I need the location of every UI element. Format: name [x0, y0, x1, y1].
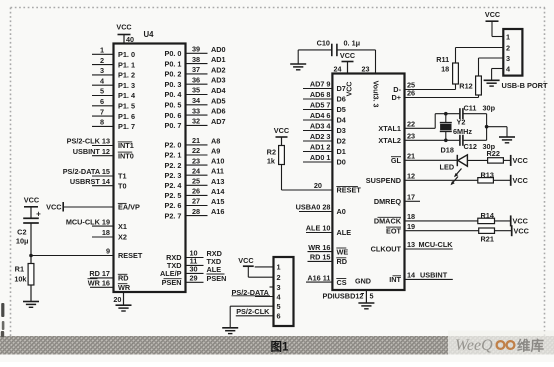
svg-text:WR 16: WR 16 — [88, 279, 110, 288]
svg-text:29: 29 — [189, 274, 197, 283]
svg-text:GL: GL — [391, 156, 402, 165]
svg-text:ALE/P: ALE/P — [160, 269, 182, 278]
svg-text:RD: RD — [118, 274, 129, 283]
svg-text:A16: A16 — [211, 207, 224, 216]
svg-text:A11: A11 — [211, 167, 224, 176]
svg-text:2: 2 — [100, 56, 104, 65]
svg-text:5: 5 — [277, 302, 281, 311]
svg-text:VCC: VCC — [513, 176, 529, 185]
D12 pin 4 D3 — [303, 122, 346, 136]
svg-text:X1: X1 — [118, 222, 127, 231]
U4 pin 36 P0.3 -> AD3 — [164, 75, 225, 89]
svg-text:24: 24 — [192, 166, 201, 175]
svg-text:PSEN: PSEN — [162, 278, 182, 287]
svg-text:P1. 0: P1. 0 — [118, 50, 135, 59]
resistor R13 on SUSPEND — [478, 170, 511, 183]
PS/2 pin 5 to ground — [230, 306, 273, 327]
svg-text:D6: D6 — [337, 95, 346, 104]
resistor R11 18 on D- — [436, 48, 458, 90]
svg-text:P0. 7: P0. 7 — [164, 121, 181, 130]
U4 pin 34 P0.5 -> AD5 — [164, 96, 225, 110]
svg-text:6: 6 — [100, 97, 104, 106]
D12 pin 17 DMREQ — [374, 193, 420, 207]
resistor R22 — [487, 149, 511, 163]
U4 pin 15 T1 / PS/2-DATA — [63, 167, 127, 181]
svg-text:GND: GND — [355, 277, 371, 286]
PS/2 pin 6 wire PS/2-CLK — [236, 307, 274, 316]
U4 pin 9 RESET — [31, 247, 143, 261]
svg-text:7: 7 — [100, 107, 104, 116]
ground under R1 — [23, 301, 39, 303]
svg-text:6: 6 — [277, 312, 281, 321]
VCC feeding C2 — [24, 196, 40, 218]
scan halftone band — [0, 336, 554, 355]
D12 pin 20 RESET — [282, 181, 362, 195]
svg-text:12: 12 — [407, 172, 415, 181]
svg-text:34: 34 — [192, 96, 201, 105]
svg-text:1: 1 — [506, 32, 510, 41]
D12 pin 2 D1 — [303, 143, 346, 157]
svg-text:AD1 2: AD1 2 — [310, 143, 331, 152]
svg-text:P2. 3: P2. 3 — [164, 171, 181, 180]
svg-text:C12: C12 — [464, 142, 477, 151]
svg-text:18: 18 — [441, 65, 449, 74]
svg-text:D1: D1 — [337, 147, 346, 156]
svg-text:AD4: AD4 — [211, 86, 227, 95]
U4 pin 24 P2.3 -> A11 — [164, 166, 224, 180]
D12 pin 5 GND — [355, 277, 373, 303]
svg-text:3: 3 — [100, 66, 104, 75]
svg-text:R21: R21 — [481, 235, 494, 244]
svg-text:PS/2-CLK 13: PS/2-CLK 13 — [67, 137, 110, 146]
svg-text:AD0: AD0 — [211, 45, 226, 54]
U4 pin EA/VP tied to VCC — [46, 202, 140, 212]
USB pin 2 wire — [456, 47, 504, 49]
svg-text:USBA0 28: USBA0 28 — [296, 203, 331, 212]
svg-text:USB-B PORT: USB-B PORT — [502, 81, 548, 90]
svg-text:21: 21 — [192, 136, 200, 145]
ground for C10 — [297, 50, 299, 64]
PS/2 pin 3 stub — [270, 286, 274, 288]
D12 pin 28 A0 — [296, 203, 346, 217]
svg-text:18: 18 — [102, 228, 110, 237]
D12 pin 10 ALE — [306, 224, 351, 238]
U4 pin 30 ALE — [160, 265, 221, 279]
svg-text:PS/2-CLK: PS/2-CLK — [236, 307, 270, 316]
U4 pin 25 P2.4 -> A13 — [164, 177, 224, 191]
D12 pin 3 D2 — [303, 132, 346, 146]
svg-text:22: 22 — [407, 120, 415, 129]
svg-text:P0. 6: P0. 6 — [164, 111, 181, 120]
svg-text:DMACK: DMACK — [374, 217, 402, 226]
D12 pin 23 XTAL2 — [378, 132, 459, 146]
svg-text:C11: C11 — [464, 103, 477, 112]
svg-text:LED: LED — [440, 163, 455, 172]
svg-text:13: 13 — [407, 240, 415, 249]
svg-text:P2. 6: P2. 6 — [164, 201, 181, 210]
svg-text:21: 21 — [407, 152, 415, 161]
resistor R12 on D+ — [459, 58, 481, 98]
svg-text:RD: RD — [337, 257, 348, 266]
capacitor C10 0.1u on Vout3.3 — [298, 39, 375, 57]
svg-text:25: 25 — [192, 177, 200, 186]
svg-text:3: 3 — [277, 283, 281, 292]
svg-text:P2. 1: P2. 1 — [164, 151, 181, 160]
MCU U4 — [114, 44, 186, 293]
svg-text:INT0: INT0 — [118, 151, 134, 160]
svg-text:D5: D5 — [337, 105, 346, 114]
svg-text:R12: R12 — [459, 82, 472, 91]
svg-text:INT: INT — [389, 275, 401, 284]
svg-text:36: 36 — [192, 75, 200, 84]
svg-text:AD3 4: AD3 4 — [310, 122, 332, 131]
svg-text:WR 16: WR 16 — [308, 243, 330, 252]
svg-text:U4: U4 — [144, 30, 155, 39]
resistor R2 1k — [267, 146, 285, 166]
U4 pin 22 P2.1 -> A9 — [164, 146, 220, 160]
D12 pin 6 D4 — [303, 111, 347, 125]
svg-text:P0. 4: P0. 4 — [164, 90, 182, 99]
svg-text:XTAL2: XTAL2 — [378, 136, 401, 145]
svg-text:D18: D18 — [441, 146, 454, 155]
PS/2 pin 1 wire — [255, 266, 274, 268]
VCC to USB pin 1 — [485, 10, 503, 37]
VCC after R21 — [511, 225, 513, 236]
U4 pin 3 P1.2 — [92, 66, 135, 80]
svg-text:USBINT: USBINT — [420, 271, 448, 280]
D12 pin 12 SUSPEND — [366, 172, 478, 186]
U4 pin 6 P1.5 — [92, 97, 135, 111]
svg-text:P2. 0: P2. 0 — [164, 141, 181, 150]
svg-text:P2. 4: P2. 4 — [164, 181, 182, 190]
svg-text:24: 24 — [334, 65, 342, 74]
svg-text:9: 9 — [106, 247, 110, 256]
svg-text:A15: A15 — [211, 197, 224, 206]
svg-text:VCC: VCC — [514, 227, 530, 236]
svg-text:17: 17 — [407, 193, 415, 202]
U4 pin 18 X2 — [92, 228, 127, 242]
svg-text:D0: D0 — [337, 158, 346, 167]
U4 pin 27 P2.6 -> A15 — [164, 197, 224, 211]
svg-text:18: 18 — [407, 212, 415, 221]
svg-text:ALE 10: ALE 10 — [306, 224, 331, 233]
svg-text:D+: D+ — [391, 93, 401, 102]
U4 pin 13 INT1 / PS/2-CLK — [67, 137, 134, 151]
svg-text:VCC: VCC — [238, 256, 254, 265]
svg-text:+: + — [36, 210, 41, 219]
svg-text:35: 35 — [192, 86, 200, 95]
svg-text:P1. 3: P1. 3 — [118, 81, 135, 90]
U4 pin 11 TXD — [167, 257, 221, 271]
svg-text:AD7: AD7 — [211, 117, 226, 126]
D12 pin 25 D- — [393, 81, 455, 95]
ground under U4 pin 20 — [116, 304, 132, 306]
svg-text:A16 11: A16 11 — [307, 273, 330, 282]
svg-text:VCC: VCC — [46, 203, 62, 212]
svg-text:22: 22 — [192, 146, 200, 155]
svg-text:A8: A8 — [211, 136, 220, 145]
svg-text:VCC: VCC — [347, 82, 354, 97]
VCC after R14 — [510, 215, 512, 226]
svg-text:VCC: VCC — [116, 23, 131, 32]
svg-text:R22: R22 — [487, 149, 500, 158]
svg-text:AD5 7: AD5 7 — [310, 101, 331, 110]
svg-text:P0. 0: P0. 0 — [164, 49, 181, 58]
svg-text:23: 23 — [362, 65, 370, 74]
node on rail — [485, 125, 489, 129]
svg-text:AD1: AD1 — [211, 55, 226, 64]
resistor R21 on EOT — [479, 228, 512, 244]
U4 pin 33 P0.6 -> AD6 — [164, 106, 225, 120]
svg-text:PS/2-DATA 15: PS/2-DATA 15 — [63, 167, 110, 176]
svg-text:USBINT 12: USBINT 12 — [73, 147, 110, 156]
svg-text:14: 14 — [407, 271, 416, 280]
svg-text:VCC: VCC — [513, 217, 529, 226]
D12 pin 13 CLKOUT — [371, 240, 454, 254]
svg-text:AD2: AD2 — [211, 65, 226, 74]
svg-text:A9: A9 — [211, 147, 220, 156]
svg-text:AD0 1: AD0 1 — [310, 153, 331, 162]
svg-text:D3: D3 — [337, 126, 346, 135]
U4 pin 35 P0.4 -> AD4 — [164, 86, 226, 100]
U4 pin 37 P0.2 -> AD2 — [164, 65, 225, 79]
U4 pin 7 P1.6 — [92, 107, 135, 121]
svg-text:MCU-CLK: MCU-CLK — [419, 240, 454, 249]
svg-text:SUSPEND: SUSPEND — [366, 176, 401, 185]
svg-text:23: 23 — [192, 156, 200, 165]
svg-text:XTAL1: XTAL1 — [378, 124, 401, 133]
D12 pin 22 XTAL1 — [378, 120, 435, 134]
svg-text:3: 3 — [506, 54, 510, 63]
U4 pin 8 P1.7 — [92, 118, 135, 132]
D12 pin 14 INT — [389, 271, 453, 285]
svg-text:Y2: Y2 — [457, 117, 466, 126]
svg-text:T0: T0 — [118, 181, 127, 190]
svg-text:P2. 5: P2. 5 — [164, 191, 181, 200]
U4 pin 19 X1 / MCU-CLK — [66, 217, 127, 231]
svg-text:Vout3. 3: Vout3. 3 — [372, 81, 379, 108]
svg-text:RESET: RESET — [337, 186, 362, 195]
svg-text:P1. 6: P1. 6 — [118, 112, 135, 121]
svg-text:AD6: AD6 — [211, 107, 226, 116]
svg-text:PDIUSBD12: PDIUSBD12 — [323, 292, 364, 301]
svg-text:VCC: VCC — [24, 196, 40, 205]
svg-text:P1. 7: P1. 7 — [118, 122, 135, 131]
svg-text:20: 20 — [314, 181, 322, 190]
svg-text:37: 37 — [192, 65, 200, 74]
D12 pin 19 EOT — [386, 222, 479, 236]
svg-text:28: 28 — [192, 207, 200, 216]
D12 pin 7 D5 — [303, 101, 346, 115]
svg-text:A0: A0 — [337, 207, 346, 216]
U4 pin 5 P1.4 — [92, 87, 136, 101]
svg-text:P1. 2: P1. 2 — [118, 71, 135, 80]
wire XTAL1 up to rail — [434, 114, 436, 129]
svg-text:8: 8 — [100, 118, 104, 127]
D12 pin 26 D+ — [391, 89, 478, 103]
wire to crystal ground — [487, 126, 507, 128]
svg-text:AD2 3: AD2 3 — [310, 132, 331, 141]
ground for crystal caps — [499, 136, 515, 138]
USB pin 3 wire — [479, 57, 504, 59]
svg-text:ALE: ALE — [337, 228, 352, 237]
svg-text:USBRST 14: USBRST 14 — [70, 177, 111, 186]
svg-text:A10: A10 — [211, 157, 224, 166]
VCC after R22 — [510, 155, 512, 166]
U4 pin 23 P2.2 -> A10 — [164, 156, 224, 170]
svg-text:30p: 30p — [483, 103, 496, 112]
D12 pin 24 VCC — [334, 51, 356, 96]
svg-text:P0. 1: P0. 1 — [164, 59, 181, 68]
svg-text:P2. 7: P2. 7 — [164, 211, 181, 220]
U4 pin 4 P1.3 — [92, 76, 135, 90]
svg-text:RD 17: RD 17 — [89, 269, 110, 278]
svg-text:T1: T1 — [118, 172, 127, 181]
svg-text:VCC: VCC — [485, 10, 500, 19]
svg-text:26: 26 — [407, 89, 415, 98]
svg-text:WE: WE — [337, 247, 349, 256]
D12 pin 18 DMACK — [374, 212, 478, 226]
svg-text:图1: 图1 — [271, 340, 289, 354]
svg-text:19: 19 — [407, 222, 415, 231]
node crystal top — [444, 112, 448, 116]
svg-text:38: 38 — [192, 55, 200, 64]
svg-text:AD4 6: AD4 6 — [310, 111, 331, 120]
svg-text:维库: 维库 — [517, 338, 545, 354]
svg-text:D7: D7 — [337, 84, 346, 93]
svg-text:40: 40 — [126, 35, 134, 44]
svg-text:R11: R11 — [436, 55, 449, 64]
U4 pin 29 PSEN — [162, 274, 227, 288]
U4 pin 1 P1.0 — [92, 46, 135, 60]
svg-text:AD3: AD3 — [211, 76, 226, 85]
D12 pin 23 Vout3.3 — [362, 50, 379, 108]
svg-text:P0. 5: P0. 5 — [164, 101, 181, 110]
PS/2 connector — [274, 257, 294, 326]
svg-text:A13: A13 — [211, 177, 224, 186]
capacitor C2 10u (polarized) — [16, 210, 41, 256]
resistor R14 on DMACK — [478, 211, 511, 224]
U4 pin 32 P0.7 -> AD7 — [164, 117, 225, 131]
U4 pin 28 P2.7 -> A16 — [164, 207, 224, 221]
VCC to PS/2 pin 2 — [238, 256, 273, 277]
crystal Y2 6MHz — [440, 114, 473, 141]
svg-text:33: 33 — [192, 106, 200, 115]
svg-text:P1. 1: P1. 1 — [118, 60, 135, 69]
D12 pin 21 GL — [391, 152, 457, 166]
PS/2 pin 4 wire PS/2-DATA — [232, 288, 274, 297]
U4 pin 12 INT0 / USBINT — [73, 147, 134, 161]
U4 pin 10 RXD — [166, 249, 222, 263]
D12 pin 15 RD — [308, 253, 348, 267]
svg-text:26: 26 — [192, 187, 200, 196]
wire R2 to D12 RESET — [281, 165, 283, 191]
U4 pin 17 RD — [89, 269, 128, 283]
svg-text:2: 2 — [277, 273, 281, 282]
D12 pin 1 D0 — [303, 153, 346, 167]
svg-text:EOT: EOT — [386, 226, 402, 235]
svg-text:WeeQ: WeeQ — [455, 337, 493, 354]
node: RESET junction — [29, 254, 33, 258]
U4 pin 26 P2.5 -> A14 — [164, 187, 225, 201]
U4 pin 16 WR — [88, 279, 131, 293]
svg-text:R1: R1 — [15, 265, 24, 274]
svg-text:23: 23 — [407, 132, 415, 141]
U4 pin 20 GND — [113, 292, 123, 305]
svg-text:0. 1μ: 0. 1μ — [344, 39, 361, 48]
USB-B port connector — [503, 29, 522, 76]
capacitor C12 30p — [460, 135, 496, 151]
svg-text:P0. 2: P0. 2 — [164, 70, 181, 79]
svg-text:2: 2 — [506, 43, 510, 52]
svg-text:A14: A14 — [211, 187, 225, 196]
svg-text:AD6 8: AD6 8 — [310, 90, 331, 99]
svg-text:DMREQ: DMREQ — [374, 197, 401, 206]
LED D18 on GL line — [440, 146, 488, 186]
svg-text:P1. 4: P1. 4 — [118, 91, 136, 100]
USB interface chip PDIUSBD12 — [332, 74, 404, 291]
D12 pin 16 WE — [308, 243, 349, 256]
svg-text:P0. 3: P0. 3 — [164, 80, 181, 89]
svg-text:5: 5 — [100, 87, 104, 96]
LED arrows — [455, 169, 462, 177]
VCC after R13 — [510, 175, 512, 186]
svg-text:CLKOUT: CLKOUT — [371, 245, 402, 254]
rail joining C11/C12 — [486, 114, 488, 141]
svg-text:C2: C2 — [17, 228, 26, 237]
svg-text:6MHz: 6MHz — [453, 127, 472, 136]
capacitor C11 30p — [460, 103, 496, 119]
svg-text:32: 32 — [192, 117, 200, 126]
U4 pin 2 P1.1 — [92, 56, 135, 70]
svg-text:VCC: VCC — [513, 156, 529, 165]
svg-text:X2: X2 — [118, 233, 127, 242]
VCC feeding R2 — [274, 126, 290, 146]
svg-text:5: 5 — [370, 292, 374, 301]
svg-text:P1. 5: P1. 5 — [118, 102, 135, 111]
svg-text:27: 27 — [192, 197, 200, 206]
svg-text:MCU-CLK 19: MCU-CLK 19 — [66, 217, 110, 226]
U4 pin 14 T0 / USBRST — [70, 177, 127, 191]
svg-text:RD 15: RD 15 — [310, 253, 331, 262]
svg-text:ALE: ALE — [207, 265, 222, 274]
svg-text:RESET: RESET — [118, 251, 143, 260]
USB pin 4 to ground — [492, 69, 504, 81]
svg-text:WR: WR — [118, 283, 131, 292]
svg-text:VCC: VCC — [340, 51, 355, 60]
D12 pin 11 CS — [306, 273, 347, 287]
resistor R1 10k — [14, 256, 34, 302]
svg-text:D4: D4 — [337, 116, 347, 125]
svg-text:C10: C10 — [317, 39, 330, 48]
svg-text:R2: R2 — [267, 148, 276, 157]
svg-text:EA/VP: EA/VP — [118, 203, 140, 212]
node crystal bottom — [444, 139, 448, 143]
svg-text:CS: CS — [337, 278, 347, 287]
D12 pin 9 D7 — [303, 80, 346, 94]
svg-text:20: 20 — [113, 295, 121, 304]
svg-text:1: 1 — [277, 263, 281, 272]
svg-text:P2. 2: P2. 2 — [164, 161, 181, 170]
svg-text:1: 1 — [100, 46, 104, 55]
ground under D12 — [358, 302, 374, 304]
svg-text:1k: 1k — [267, 157, 276, 166]
D12 pin 8 D6 — [303, 90, 346, 104]
svg-text:30: 30 — [189, 265, 197, 274]
U4 pin 39 P0.0 -> AD0 — [164, 45, 225, 59]
svg-text:AD7 9: AD7 9 — [310, 80, 331, 89]
svg-text:10μ: 10μ — [16, 237, 29, 246]
